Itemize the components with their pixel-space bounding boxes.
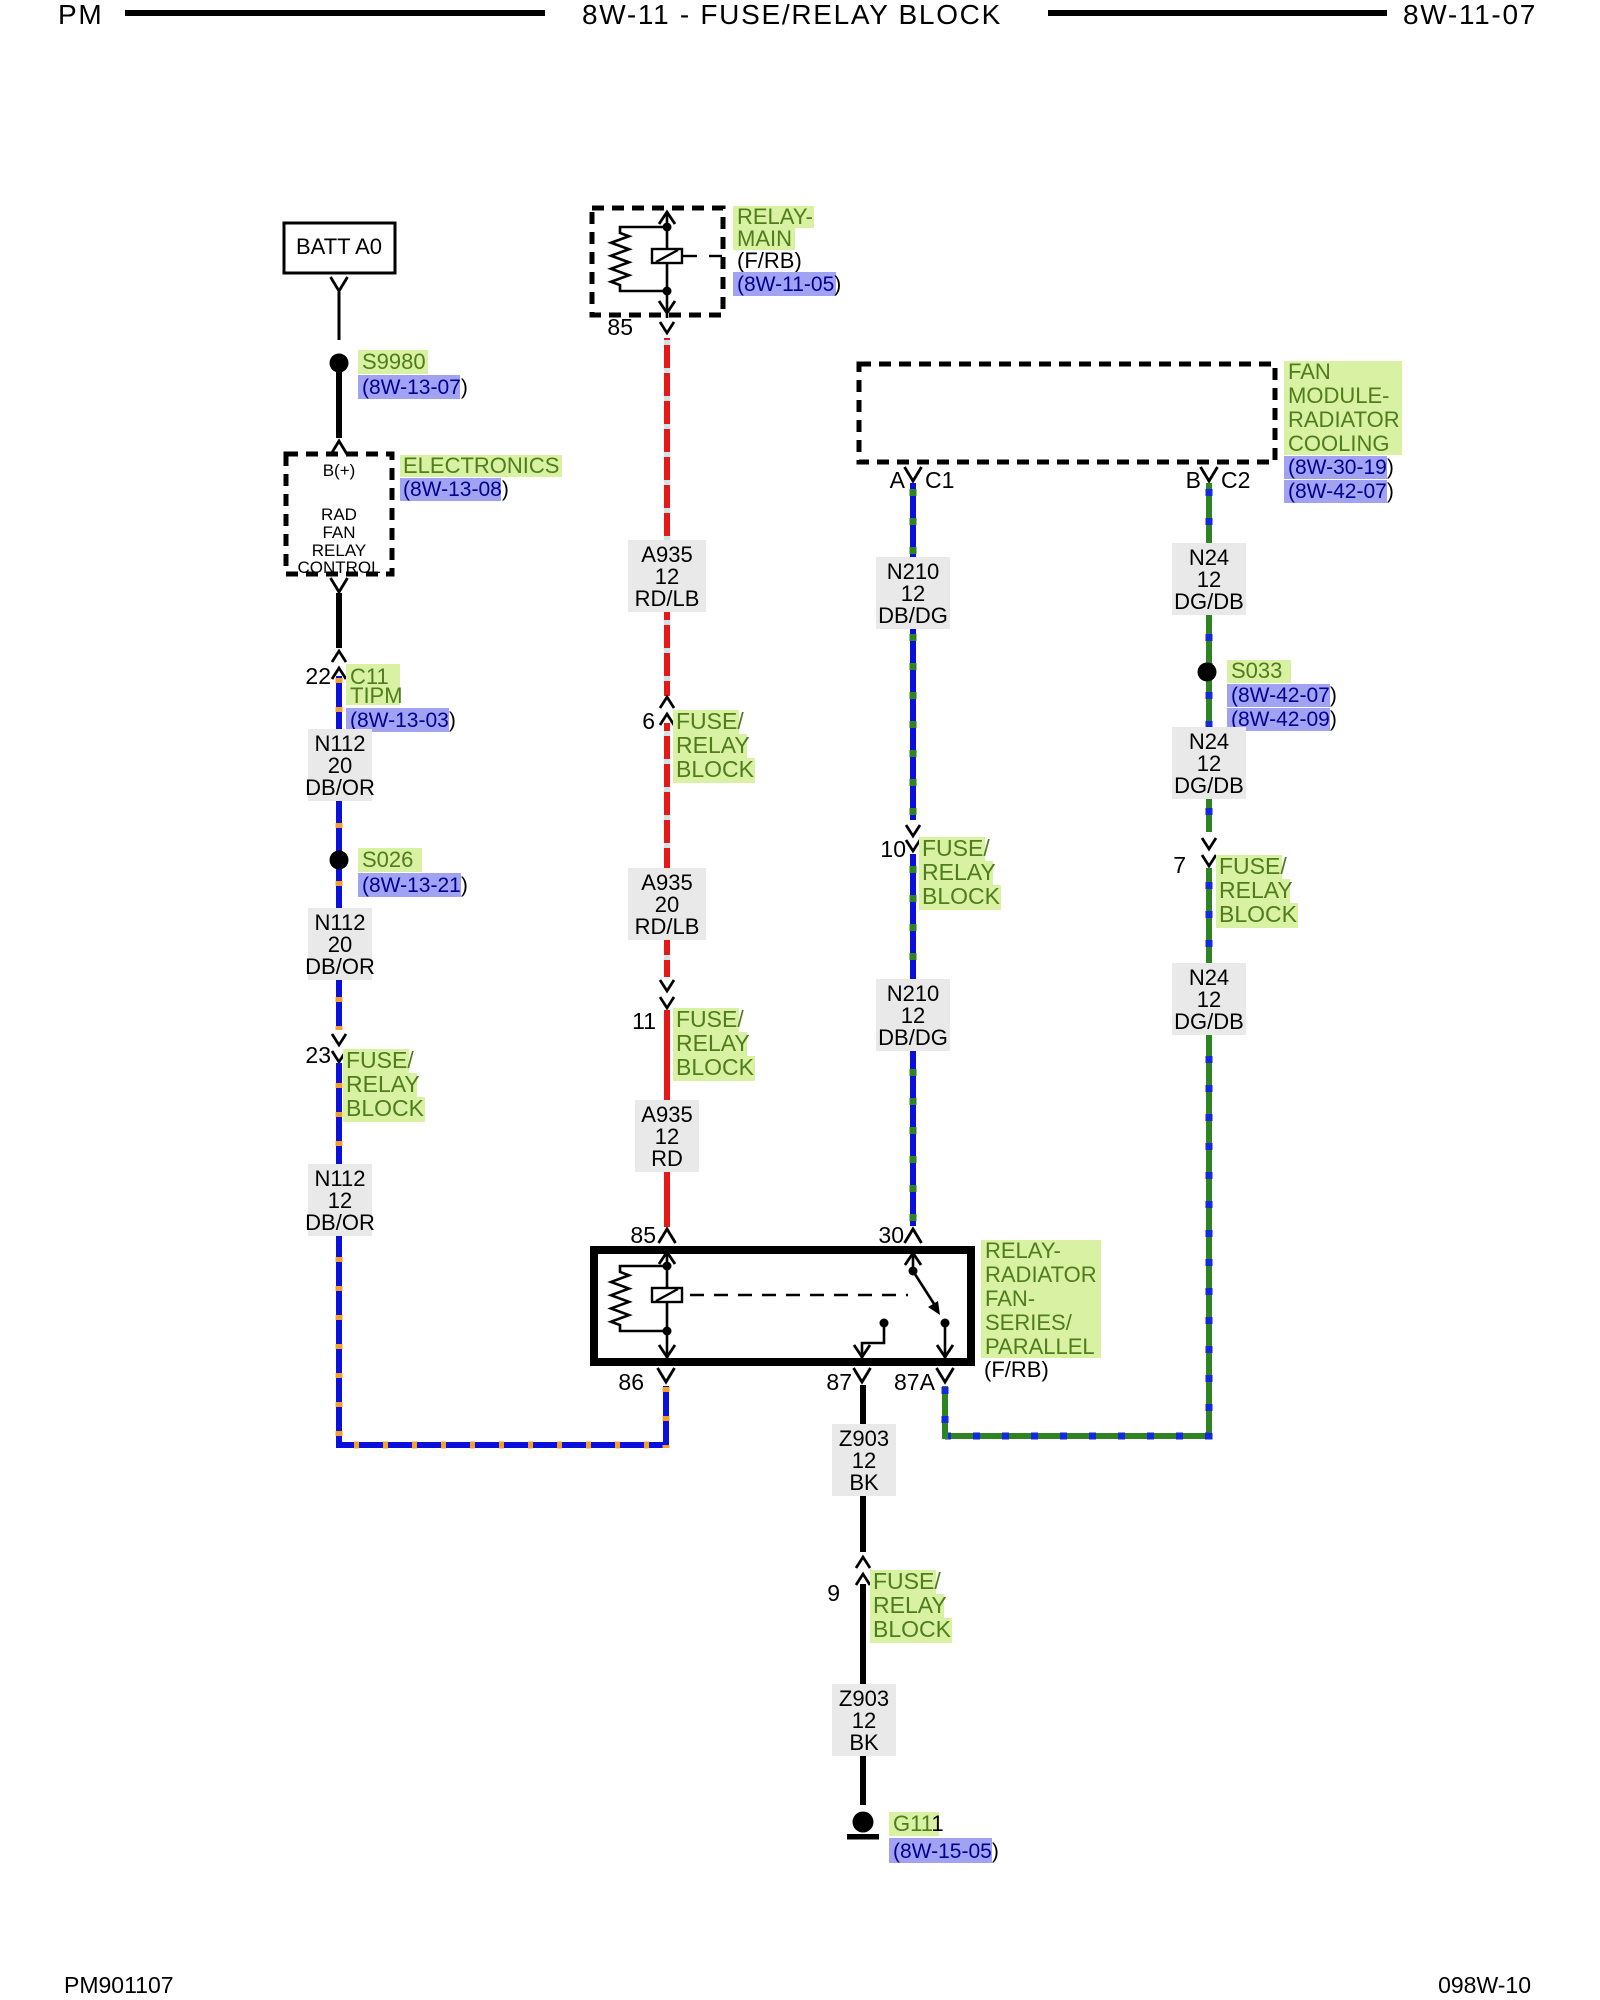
relay RELAY-MAIN dashed box (F/RB) (592, 208, 723, 315)
ground label G111 (889, 1811, 944, 1836)
svg-text:S9980: S9980 (362, 349, 426, 374)
reference label (8W-42-07) splice (1227, 684, 1337, 707)
header page code PM (58, 0, 103, 30)
connector label FUSE/RELAY BLOCK (pin 23) (343, 1047, 425, 1122)
splice label S9980 (358, 349, 428, 374)
svg-text:BLOCK: BLOCK (676, 1054, 755, 1080)
reference label (8W-13-08) (400, 478, 509, 501)
wire A935 20 RD/LB segment 2 (664, 723, 670, 977)
svg-text:(8W-13-07): (8W-13-07) (362, 376, 468, 399)
module function text RAD FAN RELAY CONTROL (297, 505, 380, 577)
svg-text:ELECTRONICS: ELECTRONICS (403, 453, 559, 478)
header page number 8W-11-07 (1403, 0, 1537, 30)
connector label C11 TIPM (346, 664, 403, 708)
relay-main resistor (611, 227, 667, 291)
relay coil output arrow to pin 86 (659, 1331, 675, 1360)
svg-text:SERIES/: SERIES/ (985, 1310, 1073, 1335)
relay label RELAY-MAIN (733, 204, 814, 251)
pin number 23 (305, 1042, 331, 1068)
pin C1 (925, 467, 954, 493)
pin C2 (1221, 467, 1250, 493)
wire label Z903 12 BK second (832, 1684, 896, 1756)
relay switch common entry arrow pin 30 (905, 1253, 921, 1271)
svg-text:MODULE-: MODULE- (1288, 383, 1389, 408)
svg-text:BLOCK: BLOCK (676, 756, 755, 782)
connector label FUSE/RELAY BLOCK (pin 9) (870, 1568, 952, 1643)
svg-text:8W-11 - FUSE/RELAY BLOCK: 8W-11 - FUSE/RELAY BLOCK (582, 0, 1002, 30)
wire N112 20 DB/OR upper segment (336, 676, 342, 1030)
svg-text:87A: 87A (894, 1369, 936, 1395)
svg-text:FUSE/: FUSE/ (922, 835, 990, 861)
svg-text:G111: G111 (893, 1811, 944, 1836)
in-line connector pin 6 chevrons (660, 697, 674, 725)
svg-text:FUSE/: FUSE/ (873, 1568, 941, 1594)
footer document number PM901107 (64, 1972, 174, 1998)
svg-text:A: A (890, 467, 906, 493)
connector chevron below BATT A0 (331, 277, 348, 291)
module label FAN MODULE-RADIATOR COOLING (1284, 359, 1402, 456)
wire label A935 20 RD/LB (628, 868, 706, 940)
header rule right (1048, 10, 1387, 16)
svg-text:BLOCK: BLOCK (873, 1616, 952, 1642)
pin number 87A (894, 1369, 936, 1395)
pin number 9 (827, 1580, 840, 1606)
svg-text:BLOCK: BLOCK (922, 883, 1001, 909)
relay resistor (611, 1266, 667, 1331)
wire Z903 12 BK lower segment (860, 1584, 866, 1805)
relay-main coil output arrow to pin 85 (659, 291, 675, 318)
svg-text:DG/DB: DG/DB (1174, 589, 1244, 614)
relay-main coil (652, 249, 722, 263)
svg-text:30: 30 (878, 1222, 904, 1248)
svg-text:RELAY: RELAY (1219, 877, 1293, 903)
header rule left (125, 10, 545, 16)
svg-text:RELAY: RELAY (676, 1030, 750, 1056)
svg-text:BLOCK: BLOCK (1219, 901, 1298, 927)
relay pin 85 connector chevron (659, 1229, 676, 1243)
reference label (8W-13-07) (358, 375, 468, 399)
svg-text:BATT A0: BATT A0 (296, 234, 382, 259)
svg-text:S026: S026 (362, 847, 413, 872)
svg-text:(8W-42-07): (8W-42-07) (1231, 684, 1337, 707)
svg-text:FAN: FAN (1288, 359, 1331, 384)
svg-text:PARALLEL: PARALLEL (985, 1334, 1095, 1359)
module ELECTRONICS dashed box (286, 454, 392, 574)
wire Z903 12 BK upper segment (860, 1385, 866, 1552)
relay label RELAY-RADIATOR FAN-SERIES/PARALLEL (981, 1238, 1101, 1359)
wire label N112 12 DB/OR (305, 1164, 375, 1236)
wire A935 12 RD segment 3 (664, 1010, 670, 1227)
in-line connector pin 7 chevrons (1202, 838, 1216, 866)
reference label (8W-42-07) fan module (1284, 480, 1394, 503)
svg-text:DG/DB: DG/DB (1174, 773, 1244, 798)
svg-text:(8W-15-05): (8W-15-05) (893, 1840, 999, 1863)
wire label N112 20 DB/OR (305, 729, 375, 801)
reference label (8W-30-19) (1284, 456, 1394, 479)
svg-text:(8W-11-05): (8W-11-05) (737, 273, 841, 296)
in-line connector pin 10 chevrons (906, 825, 920, 851)
relay pin 86 connector chevron (658, 1368, 675, 1382)
splice S9980 (330, 354, 349, 373)
svg-text:TIPM: TIPM (350, 683, 403, 708)
in-line connector pin 9 chevrons (856, 1557, 870, 1585)
relay pin 30 connector chevron (905, 1229, 922, 1243)
svg-text:RELAY-: RELAY- (985, 1238, 1061, 1263)
svg-text:FUSE/: FUSE/ (676, 708, 744, 734)
in-line connector pin 22 chevrons (332, 651, 346, 679)
svg-text:BLOCK: BLOCK (346, 1095, 425, 1121)
svg-text:6: 6 (642, 708, 655, 734)
wire label A935 12 RD/LB (628, 540, 706, 612)
svg-text:DB/OR: DB/OR (305, 1210, 375, 1235)
svg-text:85: 85 (607, 314, 633, 340)
svg-text:DB/DG: DB/DG (878, 1025, 948, 1050)
wire label N24 12 DG/DB second (1172, 727, 1246, 799)
pin number 6 (642, 708, 655, 734)
relay pin 87A connector chevron (937, 1368, 954, 1382)
pin number 87 (826, 1369, 852, 1395)
svg-text:FUSE/: FUSE/ (346, 1047, 414, 1073)
relay pin 87 connector chevron (854, 1368, 871, 1382)
arrow into ELECTRONICS B(+) (331, 441, 348, 455)
pin number 11 (632, 1008, 656, 1034)
connector label FUSE/RELAY BLOCK (pin 10) (919, 835, 1001, 910)
wire label N24 12 DG/DB (1172, 543, 1246, 615)
relay label (F/RB) (737, 248, 802, 273)
wire N210 12 DB/DG upper segment (910, 483, 916, 820)
svg-text:(8W-42-07): (8W-42-07) (1288, 480, 1394, 503)
pin B(+) (323, 461, 356, 480)
relay coil (652, 1288, 682, 1302)
svg-text:S033: S033 (1231, 658, 1282, 683)
wire label A935 12 RD (635, 1100, 699, 1172)
svg-text:C1: C1 (925, 467, 954, 493)
relay RELAY-RADIATOR FAN-SERIES/PARALLEL box (594, 1250, 971, 1362)
splice label S026 (358, 847, 422, 872)
relay-main junction dot top (663, 223, 672, 232)
fan module pin A/C1 connector chevron (905, 467, 922, 481)
reference label (8W-13-03) (346, 708, 456, 732)
relay-main junction dot bottom (663, 287, 672, 296)
svg-text:86: 86 (618, 1369, 644, 1395)
reference label (8W-42-09) (1227, 708, 1337, 731)
svg-text:FAN-: FAN- (985, 1286, 1035, 1311)
splice label S033 (1227, 658, 1291, 683)
relay contact 87A dot (941, 1319, 950, 1328)
svg-text:10: 10 (880, 836, 906, 862)
connector label FUSE/RELAY BLOCK (pin 7) (1216, 853, 1298, 928)
wire N24 12 DG/DB to relay pin 87A (945, 868, 1209, 1439)
reference label (8W-15-05) (889, 1838, 999, 1863)
wire A935 12 RD/LB segment 1 (664, 338, 670, 696)
svg-text:RELAY: RELAY (922, 859, 996, 885)
svg-text:FAN: FAN (322, 523, 355, 542)
in-line connector pin 11 chevrons (660, 980, 674, 1008)
footer sheet number 098W-10 (1438, 1972, 1531, 1998)
wire N112 12 DB/OR to relay pin 86 (339, 1063, 666, 1448)
svg-text:098W-10: 098W-10 (1438, 1972, 1531, 1998)
svg-text:RD/LB: RD/LB (635, 586, 700, 611)
in-line connector pin 23 chevrons (332, 1034, 346, 1062)
svg-text:(8W-42-09): (8W-42-09) (1231, 708, 1337, 731)
svg-text:RELAY: RELAY (873, 1592, 947, 1618)
wire label N210 12 DB/DG second (876, 979, 950, 1051)
svg-text:RELAY: RELAY (346, 1071, 420, 1097)
relay junction dot top (663, 1262, 672, 1271)
svg-text:PM: PM (58, 0, 103, 30)
pin number 86 (618, 1369, 644, 1395)
module FAN MODULE-RADIATOR COOLING dashed box (859, 364, 1275, 462)
svg-text:COOLING: COOLING (1288, 431, 1389, 456)
relay label (F/RB) radiator fan (984, 1357, 1049, 1382)
splice S026 (330, 851, 349, 870)
wire label N24 12 DG/DB third (1172, 963, 1246, 1035)
svg-text:DB/DG: DB/DG (878, 603, 948, 628)
svg-text:BK: BK (849, 1470, 879, 1495)
pin number 22 (305, 663, 331, 689)
relay contact 87 jog wire and arrow (854, 1323, 884, 1360)
svg-text:CONTROL: CONTROL (297, 558, 380, 577)
svg-text:11: 11 (632, 1008, 656, 1034)
svg-text:FUSE/: FUSE/ (676, 1006, 744, 1032)
relay contact 87 dot (880, 1319, 889, 1328)
relay-main coil branch wire and arrow (659, 212, 675, 291)
header title 8W-11 - FUSE/RELAY BLOCK (582, 0, 1002, 30)
wire S9980 to ELECTRONICS module (336, 372, 342, 438)
svg-text:9: 9 (827, 1580, 840, 1606)
svg-text:85: 85 (630, 1222, 656, 1248)
relay junction dot bottom (663, 1327, 672, 1336)
svg-text:(8W-13-03): (8W-13-03) (350, 709, 456, 732)
svg-text:B(+): B(+) (323, 461, 356, 480)
wire label N112 20 DB/OR second (305, 908, 375, 980)
connector label FUSE/RELAY BLOCK (pin 11) (673, 1006, 755, 1081)
splice S033 (1198, 663, 1217, 682)
connector chevron out of ELECTRONICS (331, 578, 348, 592)
wire ELECTRONICS to connector C11 (336, 593, 342, 648)
relay switch blade with arrowhead (913, 1271, 940, 1315)
wire N210 12 DB/DG lower segment (910, 854, 916, 1226)
svg-text:B: B (1186, 467, 1201, 493)
svg-text:7: 7 (1173, 852, 1186, 878)
relay coil entry arrow pin 85 (659, 1252, 675, 1331)
pin number 7 (1173, 852, 1186, 878)
connector label FUSE/RELAY BLOCK (pin 6) (673, 708, 755, 783)
pin A (890, 467, 906, 493)
svg-text:(8W-30-19): (8W-30-19) (1288, 456, 1394, 479)
fan module pin B/C2 connector chevron (1201, 467, 1218, 481)
svg-text:(8W-13-21): (8W-13-21) (362, 874, 468, 897)
svg-text:DB/OR: DB/OR (305, 775, 375, 800)
svg-text:(F/RB): (F/RB) (984, 1357, 1049, 1382)
reference label (8W-13-21) (358, 873, 468, 897)
pin B (1186, 467, 1201, 493)
svg-text:(F/RB): (F/RB) (737, 248, 802, 273)
relay contact 87A arrow to border (937, 1323, 953, 1360)
wire N24 12 DG/DB upper segment (1206, 483, 1212, 832)
svg-text:87: 87 (826, 1369, 852, 1395)
reference label (8W-11-05) (733, 272, 841, 296)
svg-text:23: 23 (305, 1042, 331, 1068)
battery feed box BATT A0 (284, 223, 395, 273)
svg-text:C2: C2 (1221, 467, 1250, 493)
ground G111 symbol (847, 1812, 879, 1840)
relay-main pin 85 connector chevron (660, 322, 674, 333)
pin number 85 (radiator fan relay) (630, 1222, 656, 1248)
svg-text:RADIATOR: RADIATOR (985, 1262, 1097, 1287)
pin number 10 (880, 836, 906, 862)
module label ELECTRONICS (400, 453, 562, 478)
svg-text:DG/DB: DG/DB (1174, 1009, 1244, 1034)
svg-text:RD: RD (651, 1146, 683, 1171)
pin number 30 (878, 1222, 904, 1248)
wire label Z903 12 BK (832, 1424, 896, 1496)
svg-text:RD/LB: RD/LB (635, 914, 700, 939)
wire BATT A0 to splice S9980 (338, 292, 341, 340)
relay switch pivot dot (909, 1267, 918, 1276)
wire label N210 12 DB/DG (876, 557, 950, 629)
svg-text:DB/OR: DB/OR (305, 954, 375, 979)
svg-text:8W-11-07: 8W-11-07 (1403, 0, 1537, 30)
svg-text:RADIATOR: RADIATOR (1288, 407, 1400, 432)
svg-text:RAD: RAD (321, 505, 357, 524)
relay coil link dashed line (690, 1294, 908, 1297)
svg-text:FUSE/: FUSE/ (1219, 853, 1287, 879)
svg-text:(8W-13-08): (8W-13-08) (403, 478, 509, 501)
svg-text:RELAY: RELAY (676, 732, 750, 758)
pin number 85 (relay-main) (607, 314, 633, 340)
svg-text:PM901107: PM901107 (64, 1972, 174, 1998)
svg-text:22: 22 (305, 663, 331, 689)
svg-text:BK: BK (849, 1730, 879, 1755)
